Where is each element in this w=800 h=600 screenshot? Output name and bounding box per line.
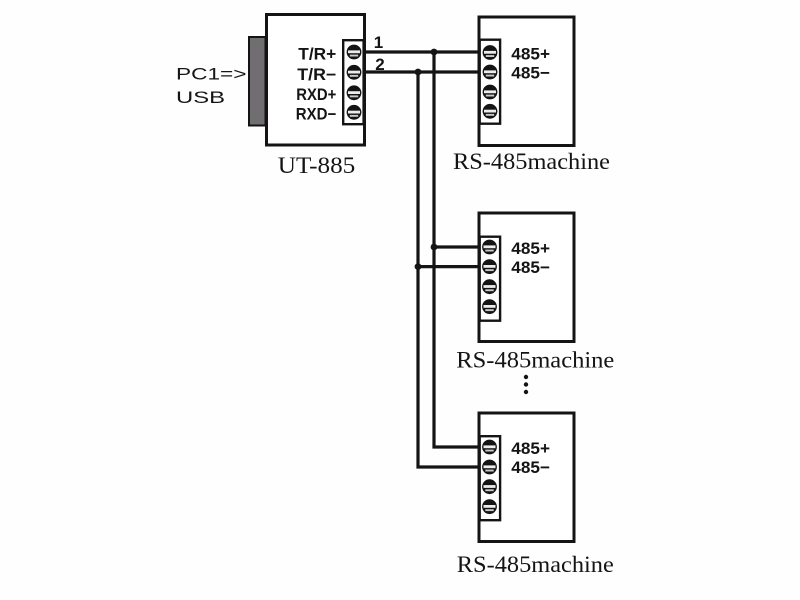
svg-text:RS-485machine: RS-485machine bbox=[456, 347, 614, 373]
converter U1 UT-885 box bbox=[267, 15, 365, 146]
wire branch to machine2 485+ bbox=[434, 245, 487, 248]
ellipsis continuation dots bbox=[524, 375, 528, 394]
svg-text:485−: 485− bbox=[511, 64, 550, 83]
svg-text:485−: 485− bbox=[511, 258, 550, 277]
svg-text:PC1=>: PC1=> bbox=[176, 65, 247, 84]
machine 2 box bbox=[479, 213, 574, 342]
svg-text:485+: 485+ bbox=[511, 439, 550, 458]
wire 2: UT-885 T/R- to machine1 485- bbox=[358, 70, 487, 73]
svg-text:RXD−: RXD− bbox=[296, 105, 337, 123]
UT-885 terminal block with screws bbox=[343, 40, 363, 124]
svg-text:1: 1 bbox=[374, 33, 383, 52]
machine 3 terminal block with screws bbox=[480, 436, 500, 520]
svg-text:2: 2 bbox=[375, 55, 384, 74]
svg-text:UT-885: UT-885 bbox=[278, 153, 356, 178]
junction node on wire1 bbox=[431, 49, 438, 56]
machine 1 terminal block with screws bbox=[480, 40, 500, 124]
svg-text:485−: 485− bbox=[511, 458, 550, 477]
svg-text:T/R+: T/R+ bbox=[298, 46, 336, 64]
svg-text:RS-485machine: RS-485machine bbox=[453, 149, 610, 175]
svg-text:RS-485machine: RS-485machine bbox=[457, 552, 614, 578]
machine 3 box bbox=[479, 413, 574, 542]
svg-text:485+: 485+ bbox=[511, 239, 550, 258]
svg-text:USB: USB bbox=[176, 88, 225, 107]
label PC1=>USB bbox=[176, 65, 247, 108]
wire branch to machine2 485- bbox=[418, 265, 487, 268]
wire 1: UT-885 T/R+ to machine1 485+ bbox=[358, 50, 487, 53]
machine 1 box bbox=[479, 17, 574, 146]
USB connector plug bbox=[249, 37, 266, 126]
svg-text:T/R−: T/R− bbox=[297, 66, 336, 84]
junction node on wire2 bbox=[415, 69, 422, 76]
junction node machine2 485- branch bbox=[415, 263, 422, 270]
svg-text:RXD+: RXD+ bbox=[296, 86, 336, 104]
svg-text:485+: 485+ bbox=[511, 45, 550, 64]
wire bus A vertical from wire1 down to machine3 485+ bbox=[434, 52, 487, 447]
wire bus B vertical from wire2 down to machine3 485- bbox=[418, 72, 487, 467]
junction node machine2 485+ branch bbox=[431, 244, 438, 251]
machine 2 terminal block with screws bbox=[480, 237, 500, 321]
